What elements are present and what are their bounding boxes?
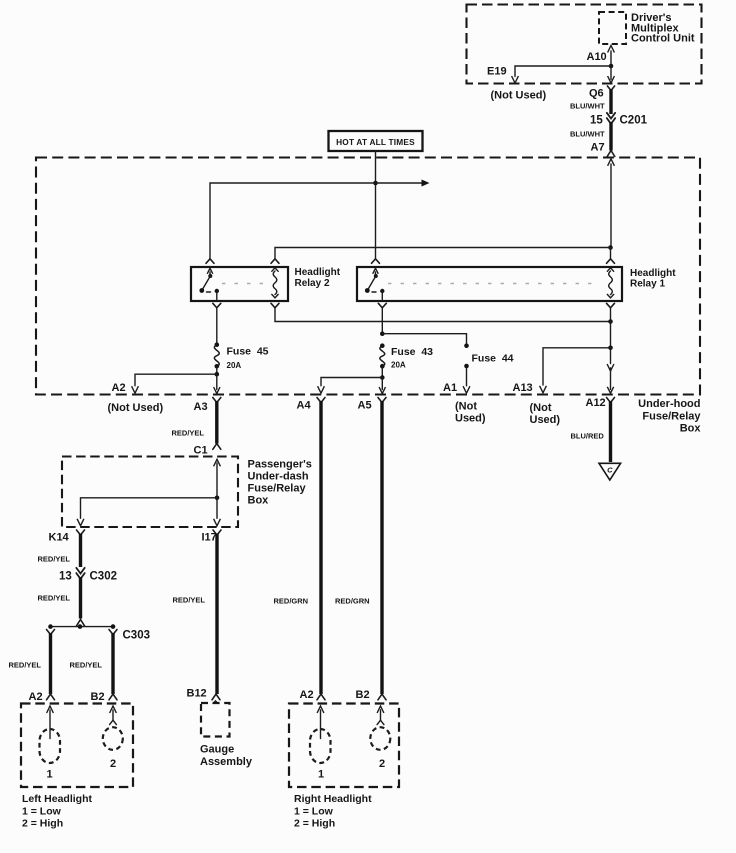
- svg-text:E19: E19: [487, 66, 507, 78]
- wire: to bulb 1 (low beam) left: [47, 706, 54, 739]
- svg-text:1: 1: [318, 769, 324, 781]
- svg-text:Relay 1: Relay 1: [630, 278, 665, 289]
- box: left headlight dashed boundary: [21, 704, 133, 788]
- label: Right Headlight legend: [294, 793, 372, 830]
- svg-text:13: 13: [59, 571, 72, 583]
- wire: RED/YEL from C303 to left headlight B2: [70, 630, 118, 700]
- bulb 1: right low beam: [310, 729, 331, 763]
- label: Left Headlight legend: [22, 793, 93, 830]
- wire: to bulb 1 (low beam) right: [317, 706, 324, 739]
- pin A2 (left headlight): [29, 691, 43, 703]
- label: Passenger's Under-dash Fuse/Relay Box: [248, 459, 312, 507]
- relay 2 coil output pin: [271, 303, 279, 308]
- wire: fuse 43 to node: [381, 366, 383, 377]
- svg-text:B2: B2: [91, 691, 105, 703]
- pin number 1 (left): [47, 769, 53, 781]
- svg-text:Passenger's: Passenger's: [248, 459, 312, 471]
- svg-text:RED/YEL: RED/YEL: [173, 596, 206, 605]
- wire: branch to headlight relay 2 switch: [206, 183, 376, 263]
- relay 2 linkage (dashed): [222, 283, 266, 285]
- wire: relay 1 coil return: [610, 308, 612, 348]
- junction: battery feed branch node: [373, 181, 378, 186]
- svg-text:Under-dash: Under-dash: [248, 471, 309, 483]
- connector C201 pin 15: [590, 113, 648, 127]
- junction: fuse 45 output node: [215, 372, 220, 377]
- wire: relay 1 output to fuse 43: [381, 308, 383, 334]
- svg-text:I17: I17: [202, 532, 217, 544]
- wire: branch to pin A2: [132, 374, 217, 393]
- svg-text:Fuse/Relay: Fuse/Relay: [248, 483, 307, 495]
- pin A5: [358, 398, 387, 412]
- pin A12: [586, 397, 615, 409]
- svg-text:B12: B12: [187, 688, 207, 700]
- wire: BLU/WHT from C201 to pin A7: [570, 122, 611, 151]
- relay 1 linkage (dashed): [388, 283, 600, 285]
- svg-text:Gauge: Gauge: [200, 744, 234, 756]
- value label: Fuse 43 20A: [391, 346, 433, 370]
- relay 2 switch output pin: [213, 303, 221, 308]
- connector C (to another sheet): [599, 463, 621, 480]
- wire: fuse 45 node to pin A3: [214, 374, 220, 393]
- svg-text:Headlight: Headlight: [630, 268, 676, 279]
- fuse F44: Fuse 44: [464, 343, 469, 368]
- junction: fuse 43 output node: [380, 375, 385, 380]
- label: Gauge Assembly: [200, 744, 253, 769]
- svg-text:Control Unit: Control Unit: [631, 33, 695, 45]
- wire: node to pin I17: [214, 498, 221, 526]
- svg-text:A3: A3: [194, 401, 208, 413]
- fuse F43: Fuse 43 20A: [380, 343, 385, 368]
- wire: RED/GRN from A5 to right headlight B2: [335, 401, 386, 700]
- wire: coil return to pin A12: [607, 348, 614, 394]
- module: gauge assembly dashed box: [201, 703, 230, 737]
- pin A10: [587, 51, 607, 63]
- wire: fuse 43 node to pin A5: [379, 378, 385, 394]
- svg-text:C201: C201: [620, 115, 648, 127]
- svg-text:1: 1: [47, 769, 53, 781]
- box: Driver's Multiplex Control Unit outer dashed boundary: [467, 5, 702, 84]
- svg-text:Q6: Q6: [589, 88, 604, 100]
- label: Under-hood Fuse/Relay Box: [638, 398, 701, 435]
- svg-text:Relay 2: Relay 2: [295, 278, 330, 289]
- svg-text:Right Headlight: Right Headlight: [294, 793, 372, 805]
- svg-text:RED/YEL: RED/YEL: [38, 555, 71, 564]
- pin E19 (not used): [487, 66, 546, 102]
- wire: RED/YEL from A3 to C1: [172, 401, 221, 449]
- module U1: driver's multiplex control unit (inner dashed box): [599, 12, 626, 44]
- wire: battery feed arrow to other circuits: [376, 180, 430, 187]
- svg-text:RED/YEL: RED/YEL: [38, 594, 71, 603]
- wire: branch to pin K14: [77, 498, 217, 526]
- pin number 2 (left): [110, 758, 116, 770]
- pin A2 (right headlight): [300, 689, 314, 701]
- svg-text:20A: 20A: [391, 361, 406, 370]
- svg-text:Fuse 45: Fuse 45: [227, 346, 269, 358]
- label: Headlight Relay 1: [630, 268, 676, 290]
- pin A7: [591, 142, 615, 166]
- svg-text:RED/YEL: RED/YEL: [172, 429, 205, 438]
- svg-text:Used): Used): [455, 413, 486, 425]
- junction: A13 branch node: [608, 346, 613, 351]
- relay 1 coil: [607, 268, 613, 298]
- svg-text:Assembly: Assembly: [200, 756, 253, 768]
- wire: fuse 45 to node: [216, 366, 218, 374]
- pin A13 (not used): [513, 382, 561, 426]
- svg-text:(Not: (Not: [455, 401, 477, 413]
- pin A1 (not used): [443, 382, 486, 425]
- wire: coil feed branch to relay 2 coil: [271, 248, 611, 264]
- svg-text:A7: A7: [591, 142, 605, 154]
- wire: A7 net down to relay coil node: [610, 164, 612, 248]
- wire: relay 2 coil return: [275, 308, 611, 322]
- svg-text:Used): Used): [530, 414, 561, 426]
- svg-text:20A: 20A: [227, 361, 242, 370]
- pin I17: [202, 530, 222, 544]
- svg-text:2: 2: [379, 758, 385, 770]
- svg-text:1 = Low: 1 = Low: [294, 805, 334, 817]
- pin A4: [297, 398, 326, 412]
- junction: fuse 44 branch node: [380, 331, 385, 336]
- wire: relay 2 output to fuse 45: [216, 308, 218, 344]
- svg-text:C: C: [607, 465, 613, 474]
- svg-text:A1: A1: [443, 382, 457, 394]
- svg-text:Left Headlight: Left Headlight: [22, 793, 93, 805]
- label: Headlight Relay 2: [295, 267, 341, 289]
- bulb 1: left low beam: [40, 729, 61, 763]
- box: right headlight dashed boundary: [289, 704, 399, 788]
- svg-text:2 = High: 2 = High: [294, 818, 335, 830]
- svg-text:RED/YEL: RED/YEL: [70, 661, 103, 670]
- connector C302 pin 13: [59, 568, 117, 583]
- wire: RED/YEL from C302 to C303: [38, 577, 85, 626]
- pin number 2 (right): [379, 758, 385, 770]
- svg-text:RED/GRN: RED/GRN: [335, 597, 370, 606]
- wire: A10 node down to pin Q6: [608, 66, 615, 83]
- svg-text:(Not Used): (Not Used): [108, 402, 164, 414]
- pin Q6: [589, 86, 615, 100]
- wire: BLU/RED from A12 to connector C: [571, 401, 611, 462]
- svg-text:2 = High: 2 = High: [22, 818, 63, 830]
- junction: node A10 branch: [609, 64, 614, 69]
- wire: RED/GRN from A4 to right headlight A2: [274, 401, 326, 700]
- pin number 1 (right): [318, 769, 324, 781]
- wire: branch to fuse 44: [382, 334, 466, 344]
- fuse F45: Fuse 45 20A: [214, 342, 219, 368]
- pin B2 (left headlight): [91, 691, 105, 703]
- bulb 2: right high beam: [370, 727, 390, 750]
- svg-text:Fuse/Relay: Fuse/Relay: [642, 411, 701, 423]
- svg-text:(Not Used): (Not Used): [491, 90, 547, 102]
- wire: RED/YEL from I17 to B12: [173, 534, 221, 700]
- relay 1 switch output pin: [378, 303, 386, 308]
- wire: C1 input inside under-dash box: [214, 459, 221, 498]
- pin B12: [187, 688, 219, 704]
- pin B2 (right headlight): [356, 689, 370, 701]
- wire: branch to pin E19: [512, 66, 611, 83]
- svg-text:1 = Low: 1 = Low: [22, 805, 62, 817]
- box: passenger's under-dash fuse/relay box dashed boundary: [62, 457, 238, 528]
- connector C1: [194, 445, 208, 457]
- relay 1 coil output pin: [607, 303, 615, 308]
- value label: Fuse 44: [472, 353, 514, 365]
- wire: branch to pin A4: [318, 378, 383, 394]
- svg-text:Fuse 44: Fuse 44: [472, 353, 514, 365]
- svg-text:(Not: (Not: [530, 402, 552, 414]
- svg-text:C303: C303: [123, 630, 151, 642]
- relay 2 switch contacts: [199, 268, 219, 299]
- svg-text:A2: A2: [112, 382, 126, 394]
- relay: Headlight Relay 2 box: [191, 267, 288, 301]
- svg-text:Headlight: Headlight: [295, 267, 341, 278]
- svg-text:A2: A2: [29, 691, 43, 703]
- wire: to bulb 2 (high beam) right: [377, 706, 384, 725]
- svg-text:Box: Box: [680, 423, 702, 435]
- wire: multiplex unit output to node A10: [608, 46, 615, 67]
- junction: relay coil feed node: [608, 245, 613, 250]
- connector C303 splice: [48, 624, 150, 641]
- svg-text:B2: B2: [356, 689, 370, 701]
- svg-text:A13: A13: [513, 382, 533, 394]
- svg-text:C1: C1: [194, 445, 208, 457]
- svg-text:15: 15: [590, 115, 603, 127]
- wire: BLU/WHT from Q6 to C201: [570, 89, 611, 114]
- bulb 2: left high beam: [103, 727, 123, 750]
- svg-text:2: 2: [110, 758, 116, 770]
- power label: HOT AT ALL TIMES: [329, 131, 423, 151]
- label: Driver's Multiplex Control Unit: [631, 12, 695, 45]
- wire: battery feed from HOT AT ALL TIMES to relay 1 switch: [372, 151, 380, 263]
- svg-text:BLU/WHT: BLU/WHT: [570, 102, 605, 111]
- wire: fuse 44 to pin A1: [463, 368, 470, 393]
- wire: RED/YEL from K14 to C302: [38, 534, 81, 568]
- relay: Headlight Relay 1 box: [357, 267, 622, 301]
- wire: branch to pin A13: [540, 348, 611, 393]
- svg-text:RED/YEL: RED/YEL: [9, 661, 42, 670]
- svg-text:A10: A10: [587, 51, 607, 63]
- value label: Fuse 45 20A: [227, 346, 269, 371]
- wire: RED/YEL from C303 to left headlight A2: [9, 630, 55, 700]
- svg-text:BLU/RED: BLU/RED: [571, 432, 605, 441]
- junction: coil return node: [608, 319, 613, 324]
- junction: under-dash branch node: [215, 496, 220, 501]
- pin A3: [194, 398, 221, 414]
- svg-text:A4: A4: [297, 400, 312, 412]
- svg-text:HOT AT ALL TIMES: HOT AT ALL TIMES: [336, 137, 415, 147]
- pin K14: [49, 530, 85, 544]
- svg-text:BLU/WHT: BLU/WHT: [570, 130, 605, 139]
- svg-text:K14: K14: [49, 532, 70, 544]
- svg-text:A5: A5: [358, 400, 372, 412]
- svg-text:Box: Box: [248, 495, 270, 507]
- pin A2 (not used): [108, 382, 164, 414]
- svg-text:C302: C302: [90, 571, 118, 583]
- svg-text:A12: A12: [586, 397, 606, 409]
- wire: coil feed to relay 1 coil: [607, 248, 615, 264]
- relay 1 switch contacts: [365, 268, 385, 299]
- svg-text:A2: A2: [300, 689, 314, 701]
- svg-text:Fuse 43: Fuse 43: [391, 346, 433, 358]
- relay 2 coil: [272, 268, 278, 298]
- svg-text:RED/GRN: RED/GRN: [274, 597, 309, 606]
- wire: to bulb 2 (high beam) left: [110, 706, 117, 725]
- svg-text:Under-hood: Under-hood: [638, 398, 700, 410]
- box: under-hood fuse/relay box dashed boundary: [36, 158, 700, 395]
